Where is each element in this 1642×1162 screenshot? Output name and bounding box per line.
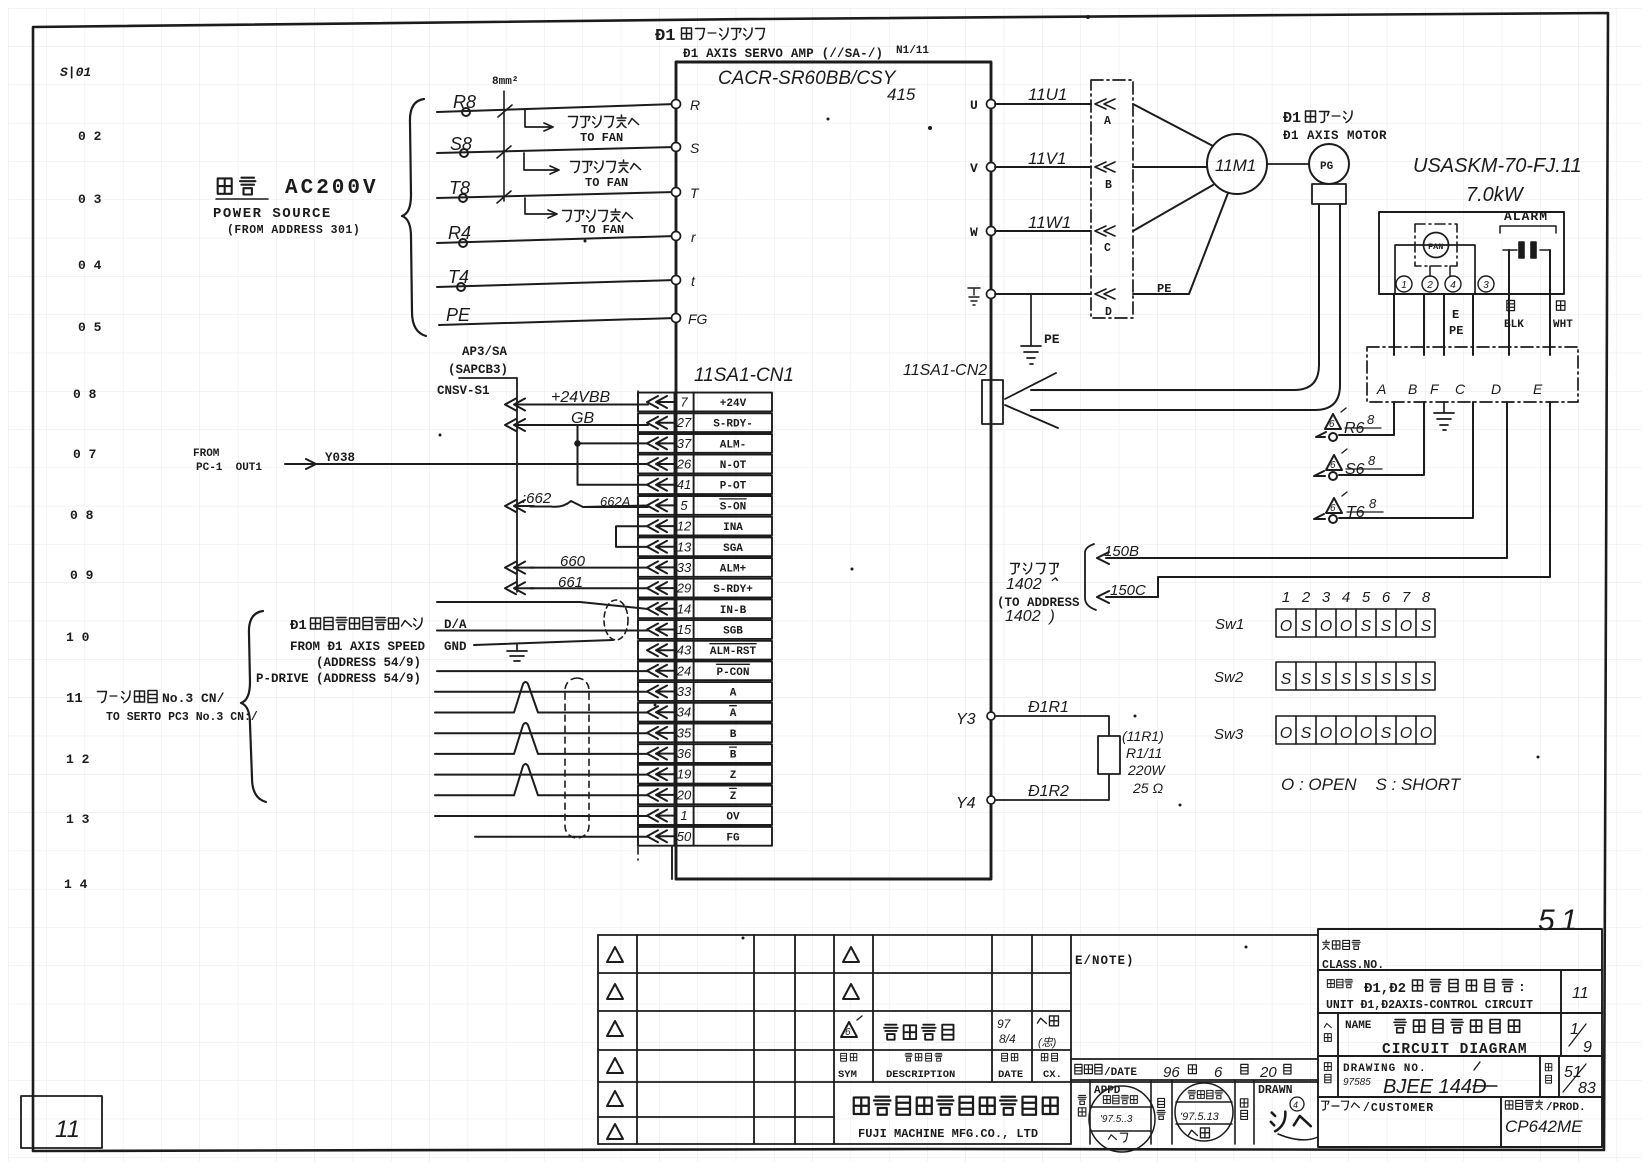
svg-text:PG: PG bbox=[1320, 161, 1334, 173]
svg-text:13: 13 bbox=[677, 539, 692, 554]
svg-text:43: 43 bbox=[677, 643, 692, 658]
svg-text:O: O bbox=[1420, 725, 1432, 742]
CN1 pin 27 S-RDY- row bbox=[638, 413, 772, 432]
CN1 pin 26 N-OT row bbox=[638, 455, 772, 474]
wire terminal B to motor bbox=[1133, 166, 1207, 168]
svg-text:U: U bbox=[970, 98, 978, 113]
svg-text:S: S bbox=[1281, 671, 1292, 688]
servo amp title japanese bbox=[655, 27, 765, 46]
svg-text:A: A bbox=[1104, 115, 1111, 128]
svg-text:FROM Ð1 AXIS SPEED: FROM Ð1 AXIS SPEED bbox=[290, 640, 426, 654]
svg-text:Z: Z bbox=[730, 791, 737, 803]
svg-text:B: B bbox=[730, 750, 737, 762]
wire 11U1 bbox=[995, 104, 1091, 294]
svg-text:+24V: +24V bbox=[720, 398, 747, 410]
pin Y3 bbox=[987, 712, 995, 720]
svg-text:11V1: 11V1 bbox=[1028, 149, 1066, 168]
brace servo pcb group bbox=[241, 611, 266, 802]
svg-text:5: 5 bbox=[1362, 589, 1371, 606]
svg-text:11: 11 bbox=[55, 1116, 80, 1143]
svg-text:POWER SOURCE: POWER SOURCE bbox=[213, 206, 332, 222]
svg-text:F: F bbox=[1430, 381, 1440, 397]
revision row3 date 97 8/4 bbox=[997, 1017, 1016, 1046]
fan circle bbox=[1424, 233, 1449, 258]
date row bbox=[1071, 1059, 1318, 1080]
svg-text:0 4: 0 4 bbox=[78, 258, 102, 273]
svg-text:1 2: 1 2 bbox=[66, 752, 90, 767]
svg-text:8mm²: 8mm² bbox=[492, 76, 518, 88]
svg-text:37: 37 bbox=[677, 436, 692, 451]
svg-text:TO FAN: TO FAN bbox=[580, 131, 623, 145]
svg-text:A: A bbox=[730, 688, 737, 700]
sheet number box bottom-left bbox=[21, 1096, 102, 1148]
twisted pair B bbox=[435, 723, 648, 754]
CN1 pin 13 SGA row bbox=[638, 537, 772, 556]
svg-text:O: O bbox=[1400, 618, 1412, 635]
wire Y038 bbox=[285, 459, 648, 469]
svg-text:8: 8 bbox=[1368, 453, 1376, 468]
svg-text:11SA1-CN2: 11SA1-CN2 bbox=[903, 362, 987, 379]
title block right bbox=[1318, 929, 1602, 1147]
svg-text:Ð1 AXIS SERVO AMP (//SA-/): Ð1 AXIS SERVO AMP (//SA-/) bbox=[683, 47, 883, 61]
revision triangle T6 bbox=[1326, 492, 1347, 514]
svg-text:97: 97 bbox=[997, 1017, 1012, 1031]
svg-text:PC-1 OUT1: PC-1 OUT1 bbox=[196, 462, 262, 474]
svg-text:BLK: BLK bbox=[1504, 319, 1524, 331]
CN1 pin 34 A row bbox=[638, 703, 772, 722]
twisted pair A bbox=[435, 682, 648, 837]
wire R8 bbox=[437, 104, 676, 325]
svg-text:4: 4 bbox=[1342, 589, 1350, 606]
svg-text:15: 15 bbox=[677, 622, 692, 637]
DIP switch column numbers 1-8 bbox=[1282, 589, 1431, 606]
svg-text:O: O bbox=[1280, 725, 1292, 742]
svg-text:83: 83 bbox=[1578, 1080, 1596, 1097]
connector CNSV-S1 labels bbox=[437, 345, 508, 398]
svg-text:150B: 150B bbox=[1104, 543, 1139, 560]
svg-text:/PROD.: /PROD. bbox=[1546, 1102, 1586, 1114]
svg-text:5: 5 bbox=[680, 498, 688, 513]
wire S8 bbox=[437, 147, 676, 153]
fan terminal 1 bbox=[1396, 276, 1412, 292]
stamp row dividers bbox=[1090, 1080, 1254, 1144]
svg-text:PE: PE bbox=[1044, 332, 1060, 347]
wire T6-8 bbox=[1314, 402, 1473, 519]
svg-text:E: E bbox=[1533, 381, 1543, 397]
wire PE to motor bbox=[995, 293, 1091, 295]
svg-text:R4: R4 bbox=[448, 223, 471, 243]
svg-text:P-CON: P-CON bbox=[716, 667, 749, 679]
svg-text:0 7: 0 7 bbox=[73, 447, 96, 462]
svg-text:PE: PE bbox=[446, 305, 471, 325]
CN1 pin 19 Z row bbox=[638, 765, 772, 784]
connector CN1 dashed spine bbox=[637, 391, 639, 860]
revision triangle R6 bbox=[1325, 408, 1346, 430]
svg-text:WHT: WHT bbox=[1553, 319, 1573, 331]
svg-text:6: 6 bbox=[845, 1027, 851, 1038]
svg-text:24: 24 bbox=[676, 663, 691, 678]
svg-text:SYM: SYM bbox=[838, 1069, 857, 1081]
svg-text:S: S bbox=[1421, 671, 1432, 688]
svg-text:8: 8 bbox=[1422, 589, 1431, 606]
svg-text:T4: T4 bbox=[448, 267, 469, 287]
wire OV bbox=[435, 815, 648, 817]
CN1 pin 1 OV row bbox=[638, 806, 772, 825]
svg-text:D/A: D/A bbox=[444, 618, 467, 632]
fan branch 2 bbox=[524, 153, 559, 174]
svg-text:11: 11 bbox=[66, 691, 83, 707]
svg-text:7: 7 bbox=[1402, 589, 1411, 606]
svg-text:9: 9 bbox=[1583, 1039, 1592, 1056]
wire 150C bbox=[1097, 402, 1550, 603]
fan inner box bbox=[1395, 245, 1475, 294]
svg-text:6: 6 bbox=[1330, 460, 1336, 471]
wire 662 bbox=[530, 501, 648, 507]
power source label AC200V bbox=[213, 177, 379, 237]
svg-text:E/NOTE): E/NOTE) bbox=[1075, 954, 1135, 968]
ground for D/A shield bbox=[507, 644, 527, 661]
label FROM PC-1 OUT1 bbox=[193, 448, 262, 474]
svg-text:S: S bbox=[1341, 671, 1352, 688]
wire T8 bbox=[437, 192, 676, 198]
wire junction GB to ALM- and P-OT bbox=[578, 425, 649, 485]
CN1 pin 12 INA row bbox=[638, 517, 772, 536]
twisted pair Z bbox=[435, 764, 648, 795]
CN1 pin 50 FG row bbox=[638, 827, 772, 846]
svg-text:Ð1: Ð1 bbox=[655, 27, 675, 46]
connector CNSV-S1 body bbox=[459, 378, 517, 592]
CN1 pin 20 Z row bbox=[638, 786, 772, 805]
CN1 pin 37 ALM- row bbox=[638, 434, 772, 453]
CN1 pin 7 +24V row bbox=[638, 393, 772, 412]
motor terminal box (dash-dot) bbox=[1091, 80, 1133, 318]
motor connector (dash-dot) bbox=[1367, 347, 1578, 402]
svg-text:S: S bbox=[1381, 671, 1392, 688]
svg-text:3: 3 bbox=[1322, 589, 1331, 606]
svg-text:/DATE: /DATE bbox=[1104, 1067, 1137, 1079]
svg-text:1402 ): 1402 ) bbox=[1005, 608, 1055, 625]
svg-text:96: 96 bbox=[1163, 1064, 1180, 1081]
svg-text:+24VBB: +24VBB bbox=[551, 389, 610, 406]
header row4 DATE bbox=[1002, 1053, 1018, 1061]
svg-text:B: B bbox=[730, 729, 737, 741]
svg-text:GND: GND bbox=[444, 640, 467, 654]
wire PE bbox=[439, 318, 676, 325]
wire 660 bbox=[530, 567, 648, 569]
svg-text:1: 1 bbox=[680, 808, 687, 823]
svg-text:SGA: SGA bbox=[723, 543, 743, 555]
wire fan 4 to connector F bbox=[1443, 294, 1445, 355]
svg-text:0 8: 0 8 bbox=[73, 387, 97, 402]
svg-text::662: :662 bbox=[522, 490, 552, 507]
wire +24VBB bbox=[285, 399, 648, 595]
wire 661 bbox=[530, 587, 648, 589]
PG cable stub box bbox=[1312, 184, 1346, 204]
svg-text:FG: FG bbox=[726, 832, 740, 844]
svg-text:CIRCUIT DIAGRAM: CIRCUIT DIAGRAM bbox=[1382, 1042, 1528, 1058]
svg-text:CACR-SR60BB/CSY: CACR-SR60BB/CSY bbox=[718, 68, 897, 89]
svg-text:S-RDY+: S-RDY+ bbox=[713, 584, 753, 596]
wire terminal C to motor bbox=[1133, 185, 1213, 231]
revision triangles column 1 bbox=[607, 947, 623, 1139]
svg-text:'97.5..3: '97.5..3 bbox=[1100, 1114, 1133, 1125]
svg-text:S: S bbox=[690, 140, 700, 156]
svg-text:6: 6 bbox=[1214, 1064, 1223, 1081]
revision triangle S6 bbox=[1326, 449, 1347, 471]
svg-text:O : OPEN S : SHORT: O : OPEN S : SHORT bbox=[1281, 775, 1462, 794]
svg-text:(FROM ADDRESS 301): (FROM ADDRESS 301) bbox=[227, 224, 360, 237]
svg-text:CLASS.NO.: CLASS.NO. bbox=[1322, 959, 1384, 972]
svg-text:S: S bbox=[1301, 671, 1312, 688]
svg-text:6: 6 bbox=[1330, 503, 1336, 514]
svg-text:0 2: 0 2 bbox=[78, 129, 102, 144]
fan branch 3 bbox=[525, 198, 557, 218]
svg-text:ALM-RST: ALM-RST bbox=[710, 646, 757, 658]
CN1 pin 36 B row bbox=[638, 744, 772, 763]
svg-text:661: 661 bbox=[558, 574, 583, 591]
svg-text:Sw1: Sw1 bbox=[1215, 616, 1244, 633]
svg-text:B: B bbox=[1105, 179, 1112, 192]
svg-text:O: O bbox=[1340, 618, 1352, 635]
svg-text:TO SERTO PC3 No.3 CN:/: TO SERTO PC3 No.3 CN:/ bbox=[106, 711, 258, 724]
svg-text:B: B bbox=[1408, 381, 1417, 397]
svg-text:36: 36 bbox=[677, 746, 692, 761]
svg-text:USASKM-70-FJ.11: USASKM-70-FJ.11 bbox=[1413, 155, 1582, 177]
svg-text:S: S bbox=[1401, 671, 1412, 688]
svg-text:20: 20 bbox=[676, 787, 692, 802]
header row4 SYM bbox=[841, 1053, 857, 1061]
header row4 CX bbox=[1041, 1053, 1057, 1061]
svg-text:2: 2 bbox=[1426, 280, 1433, 291]
wire 150B bbox=[1097, 402, 1507, 564]
svg-text:11W1: 11W1 bbox=[1028, 213, 1071, 232]
svg-text:OV: OV bbox=[726, 812, 740, 824]
svg-text:Ð1: Ð1 bbox=[1283, 110, 1301, 127]
svg-text:Ð1: Ð1 bbox=[290, 618, 307, 634]
svg-text:O: O bbox=[1400, 725, 1412, 742]
down arrows into connector bbox=[1389, 355, 1399, 382]
svg-text:0 8: 0 8 bbox=[70, 508, 94, 523]
fan terminal 4 bbox=[1445, 276, 1461, 292]
svg-text:A: A bbox=[1376, 381, 1386, 397]
svg-text:11M1: 11M1 bbox=[1215, 156, 1256, 175]
svg-text:8/4: 8/4 bbox=[999, 1032, 1016, 1046]
fan terminal 2 bbox=[1422, 276, 1438, 292]
svg-text:26: 26 bbox=[676, 457, 692, 472]
svg-text:11SA1-CN1: 11SA1-CN1 bbox=[694, 365, 794, 386]
svg-text:TO FAN: TO FAN bbox=[581, 223, 624, 237]
fan branch 1 bbox=[525, 110, 553, 131]
svg-text:25 Ω: 25 Ω bbox=[1132, 780, 1163, 796]
wire P-CON bbox=[437, 670, 648, 672]
svg-text:R: R bbox=[690, 97, 700, 113]
svg-text:GB: GB bbox=[571, 410, 594, 427]
8mm2 cable size mark bbox=[497, 91, 512, 203]
wire alarm to connector E bbox=[1549, 250, 1551, 355]
wire S6-8 bbox=[1314, 402, 1424, 476]
svg-text:A: A bbox=[730, 708, 737, 720]
wire T4 bbox=[437, 280, 676, 287]
motor M1 circle bbox=[1207, 134, 1267, 194]
svg-text:2: 2 bbox=[1301, 589, 1311, 606]
svg-text:ALM-: ALM- bbox=[720, 439, 746, 451]
terminal A B C D labels bbox=[1104, 115, 1112, 319]
svg-text:DRAWN: DRAWN bbox=[1258, 1084, 1293, 1097]
pins U V W PE on amp right edge bbox=[987, 100, 996, 299]
connector 11SA1-CN2 bbox=[982, 380, 1003, 424]
wire GB bbox=[530, 424, 648, 426]
wire motor-PG bbox=[1267, 163, 1309, 165]
wire terminal A to motor bbox=[1133, 104, 1213, 146]
address bracket bbox=[1085, 544, 1096, 610]
svg-text:Y038: Y038 bbox=[325, 451, 355, 465]
svg-text:S: S bbox=[1421, 618, 1432, 635]
svg-text:Ð1,Ð2: Ð1,Ð2 bbox=[1364, 981, 1406, 997]
svg-text:S-ON: S-ON bbox=[720, 501, 746, 513]
svg-text:0 5: 0 5 bbox=[78, 320, 102, 335]
stamp APPD circle bbox=[1089, 1086, 1155, 1152]
wire fan 1 to connector A bbox=[1393, 294, 1395, 355]
svg-text:33: 33 bbox=[677, 684, 692, 699]
svg-text:V: V bbox=[970, 161, 978, 176]
svg-text:P-OT: P-OT bbox=[720, 481, 747, 493]
svg-text:34: 34 bbox=[677, 705, 691, 720]
svg-text:O: O bbox=[1360, 725, 1372, 742]
shield tube (dashed) around encoder pairs bbox=[565, 678, 589, 838]
svg-text:O: O bbox=[1320, 618, 1332, 635]
svg-text:S: S bbox=[1361, 671, 1372, 688]
svg-text:27: 27 bbox=[676, 415, 692, 430]
svg-text:12: 12 bbox=[677, 519, 692, 534]
svg-text:DESCRIPTION: DESCRIPTION bbox=[886, 1069, 955, 1081]
CN1 pin 43 ALM-RST row bbox=[638, 641, 772, 660]
svg-text:Ð1 AXIS MOTOR: Ð1 AXIS MOTOR bbox=[1283, 129, 1387, 143]
svg-text:50: 50 bbox=[677, 829, 692, 844]
revision table bbox=[598, 935, 1318, 1144]
node S101 line-number margin bbox=[60, 65, 102, 892]
customer box bbox=[1321, 1101, 1359, 1110]
wire R4 bbox=[437, 236, 676, 243]
wire alarm to connector D bbox=[1508, 250, 1510, 355]
svg-text:11: 11 bbox=[1572, 985, 1589, 1002]
wire fan 3 to connector C bbox=[1472, 294, 1474, 355]
svg-text:/CUSTOMER: /CUSTOMER bbox=[1363, 1102, 1434, 1115]
svg-text:D: D bbox=[1105, 306, 1112, 319]
svg-text:S: S bbox=[1361, 618, 1372, 635]
svg-text:S-RDY-: S-RDY- bbox=[713, 419, 753, 431]
arrows into terminals bbox=[1095, 99, 1115, 299]
svg-text:T8: T8 bbox=[449, 178, 470, 198]
fan terminal block outer box bbox=[1379, 212, 1564, 294]
wire labels R8 S8 T8 R4 T4 PE bbox=[446, 92, 476, 325]
pin Y4 bbox=[987, 796, 995, 804]
wire D1R2 bbox=[995, 774, 1109, 800]
svg-text:No.3 CN/: No.3 CN/ bbox=[162, 691, 225, 706]
svg-text:8: 8 bbox=[1369, 496, 1377, 511]
svg-text:3: 3 bbox=[1483, 280, 1489, 291]
svg-text:14: 14 bbox=[677, 601, 691, 616]
CN1 pin 14 IN-B row bbox=[638, 599, 772, 618]
ground glyph at pin 4 bbox=[968, 288, 980, 305]
svg-text:O: O bbox=[1280, 618, 1292, 635]
wire CN1 spine to box bottom bbox=[671, 847, 673, 879]
resistor R1 bbox=[1098, 736, 1120, 774]
CN1 pin 35 B row bbox=[638, 724, 772, 743]
CN1 pin 5 S-ON row bbox=[638, 496, 772, 515]
svg-text:7: 7 bbox=[680, 395, 688, 410]
svg-text:T: T bbox=[690, 185, 700, 201]
wire R6-8 bbox=[1097, 402, 1550, 603]
svg-text:Ð1R2: Ð1R2 bbox=[1028, 783, 1069, 800]
svg-text:4: 4 bbox=[1293, 1100, 1298, 1110]
svg-text:0 9: 0 9 bbox=[70, 568, 94, 583]
svg-text:19: 19 bbox=[677, 767, 691, 782]
revision entry row3: triangle 6 bbox=[841, 1016, 862, 1038]
alarm contact bbox=[1503, 242, 1550, 258]
svg-text:D: D bbox=[1491, 381, 1501, 397]
svg-text:CNSV-S1: CNSV-S1 bbox=[437, 384, 490, 398]
connector CN1 row boxes bbox=[638, 393, 772, 846]
header row4 DESCRIPTION bbox=[905, 1053, 942, 1061]
svg-text:FG: FG bbox=[688, 311, 708, 327]
svg-text:CP642ME: CP642ME bbox=[1505, 1117, 1583, 1136]
svg-text:11U1: 11U1 bbox=[1028, 85, 1067, 104]
label address 1402 (japanese) bbox=[1010, 563, 1058, 574]
svg-text:C: C bbox=[1104, 242, 1111, 255]
svg-text:4: 4 bbox=[1450, 280, 1456, 291]
svg-text:51: 51 bbox=[1538, 904, 1583, 937]
ground below connector F bbox=[1434, 402, 1454, 430]
ground PE stub below pin4 wire bbox=[1021, 294, 1041, 364]
svg-text:S: S bbox=[1301, 725, 1312, 742]
svg-text:O: O bbox=[1340, 725, 1352, 742]
label servo pcb No.3 (japanese) bbox=[66, 691, 225, 708]
CN1 pin 24 P-CON row bbox=[638, 661, 772, 680]
svg-text:P-DRIVE (ADDRESS 54/9): P-DRIVE (ADDRESS 54/9) bbox=[256, 672, 421, 686]
drawing no box bbox=[1324, 1063, 1331, 1083]
servo amp U1 box bbox=[676, 62, 991, 879]
svg-text:41: 41 bbox=[677, 477, 691, 492]
label D1 axis motor (japanese) bbox=[1283, 110, 1352, 127]
svg-text:(SAPCB3): (SAPCB3) bbox=[448, 363, 508, 377]
class no box bbox=[1323, 940, 1361, 949]
svg-text:Sw3: Sw3 bbox=[1214, 726, 1244, 743]
svg-text:C: C bbox=[1455, 381, 1466, 397]
svg-text:R1/11: R1/11 bbox=[1126, 745, 1162, 761]
svg-text:29: 29 bbox=[676, 581, 691, 596]
svg-text:N1/11: N1/11 bbox=[896, 45, 929, 57]
svg-text:1 4: 1 4 bbox=[64, 877, 88, 892]
svg-text:ALARM: ALARM bbox=[1504, 209, 1548, 224]
rotated kanji small cols bbox=[1078, 1095, 1248, 1119]
wire terminal D PE to motor frame bbox=[1133, 193, 1228, 294]
CN1 pin 29 S-RDY+ row bbox=[638, 579, 772, 598]
svg-text:20: 20 bbox=[1259, 1064, 1277, 1081]
svg-text:660: 660 bbox=[560, 553, 586, 570]
svg-text:220W: 220W bbox=[1127, 762, 1166, 778]
pins R S T r t FG on amp left edge bbox=[672, 100, 681, 323]
svg-text:0 3: 0 3 bbox=[78, 192, 102, 207]
svg-text:1 3: 1 3 bbox=[66, 812, 90, 827]
svg-text:FUJI MACHINE MFG.CO., LTD: FUJI MACHINE MFG.CO., LTD bbox=[858, 1127, 1038, 1141]
svg-text:S: S bbox=[1381, 725, 1392, 742]
svg-text:1: 1 bbox=[1401, 280, 1407, 291]
svg-text:Y3: Y3 bbox=[956, 711, 976, 728]
shield circle (dashed) around IN-B/SGB pair bbox=[604, 600, 628, 640]
svg-text:(11R1): (11R1) bbox=[1122, 728, 1164, 744]
svg-text:(忠): (忠) bbox=[1038, 1036, 1057, 1049]
revision row3 checker (japanese) bbox=[1037, 1016, 1058, 1049]
